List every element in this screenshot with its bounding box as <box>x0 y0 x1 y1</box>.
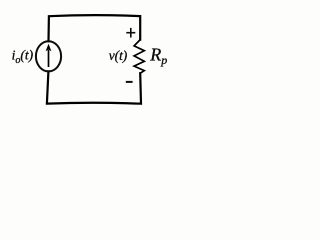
svg-text:io(t): io(t) <box>12 48 34 67</box>
svg-text:v(t): v(t) <box>109 48 128 63</box>
svg-text:Rp: Rp <box>149 45 167 68</box>
